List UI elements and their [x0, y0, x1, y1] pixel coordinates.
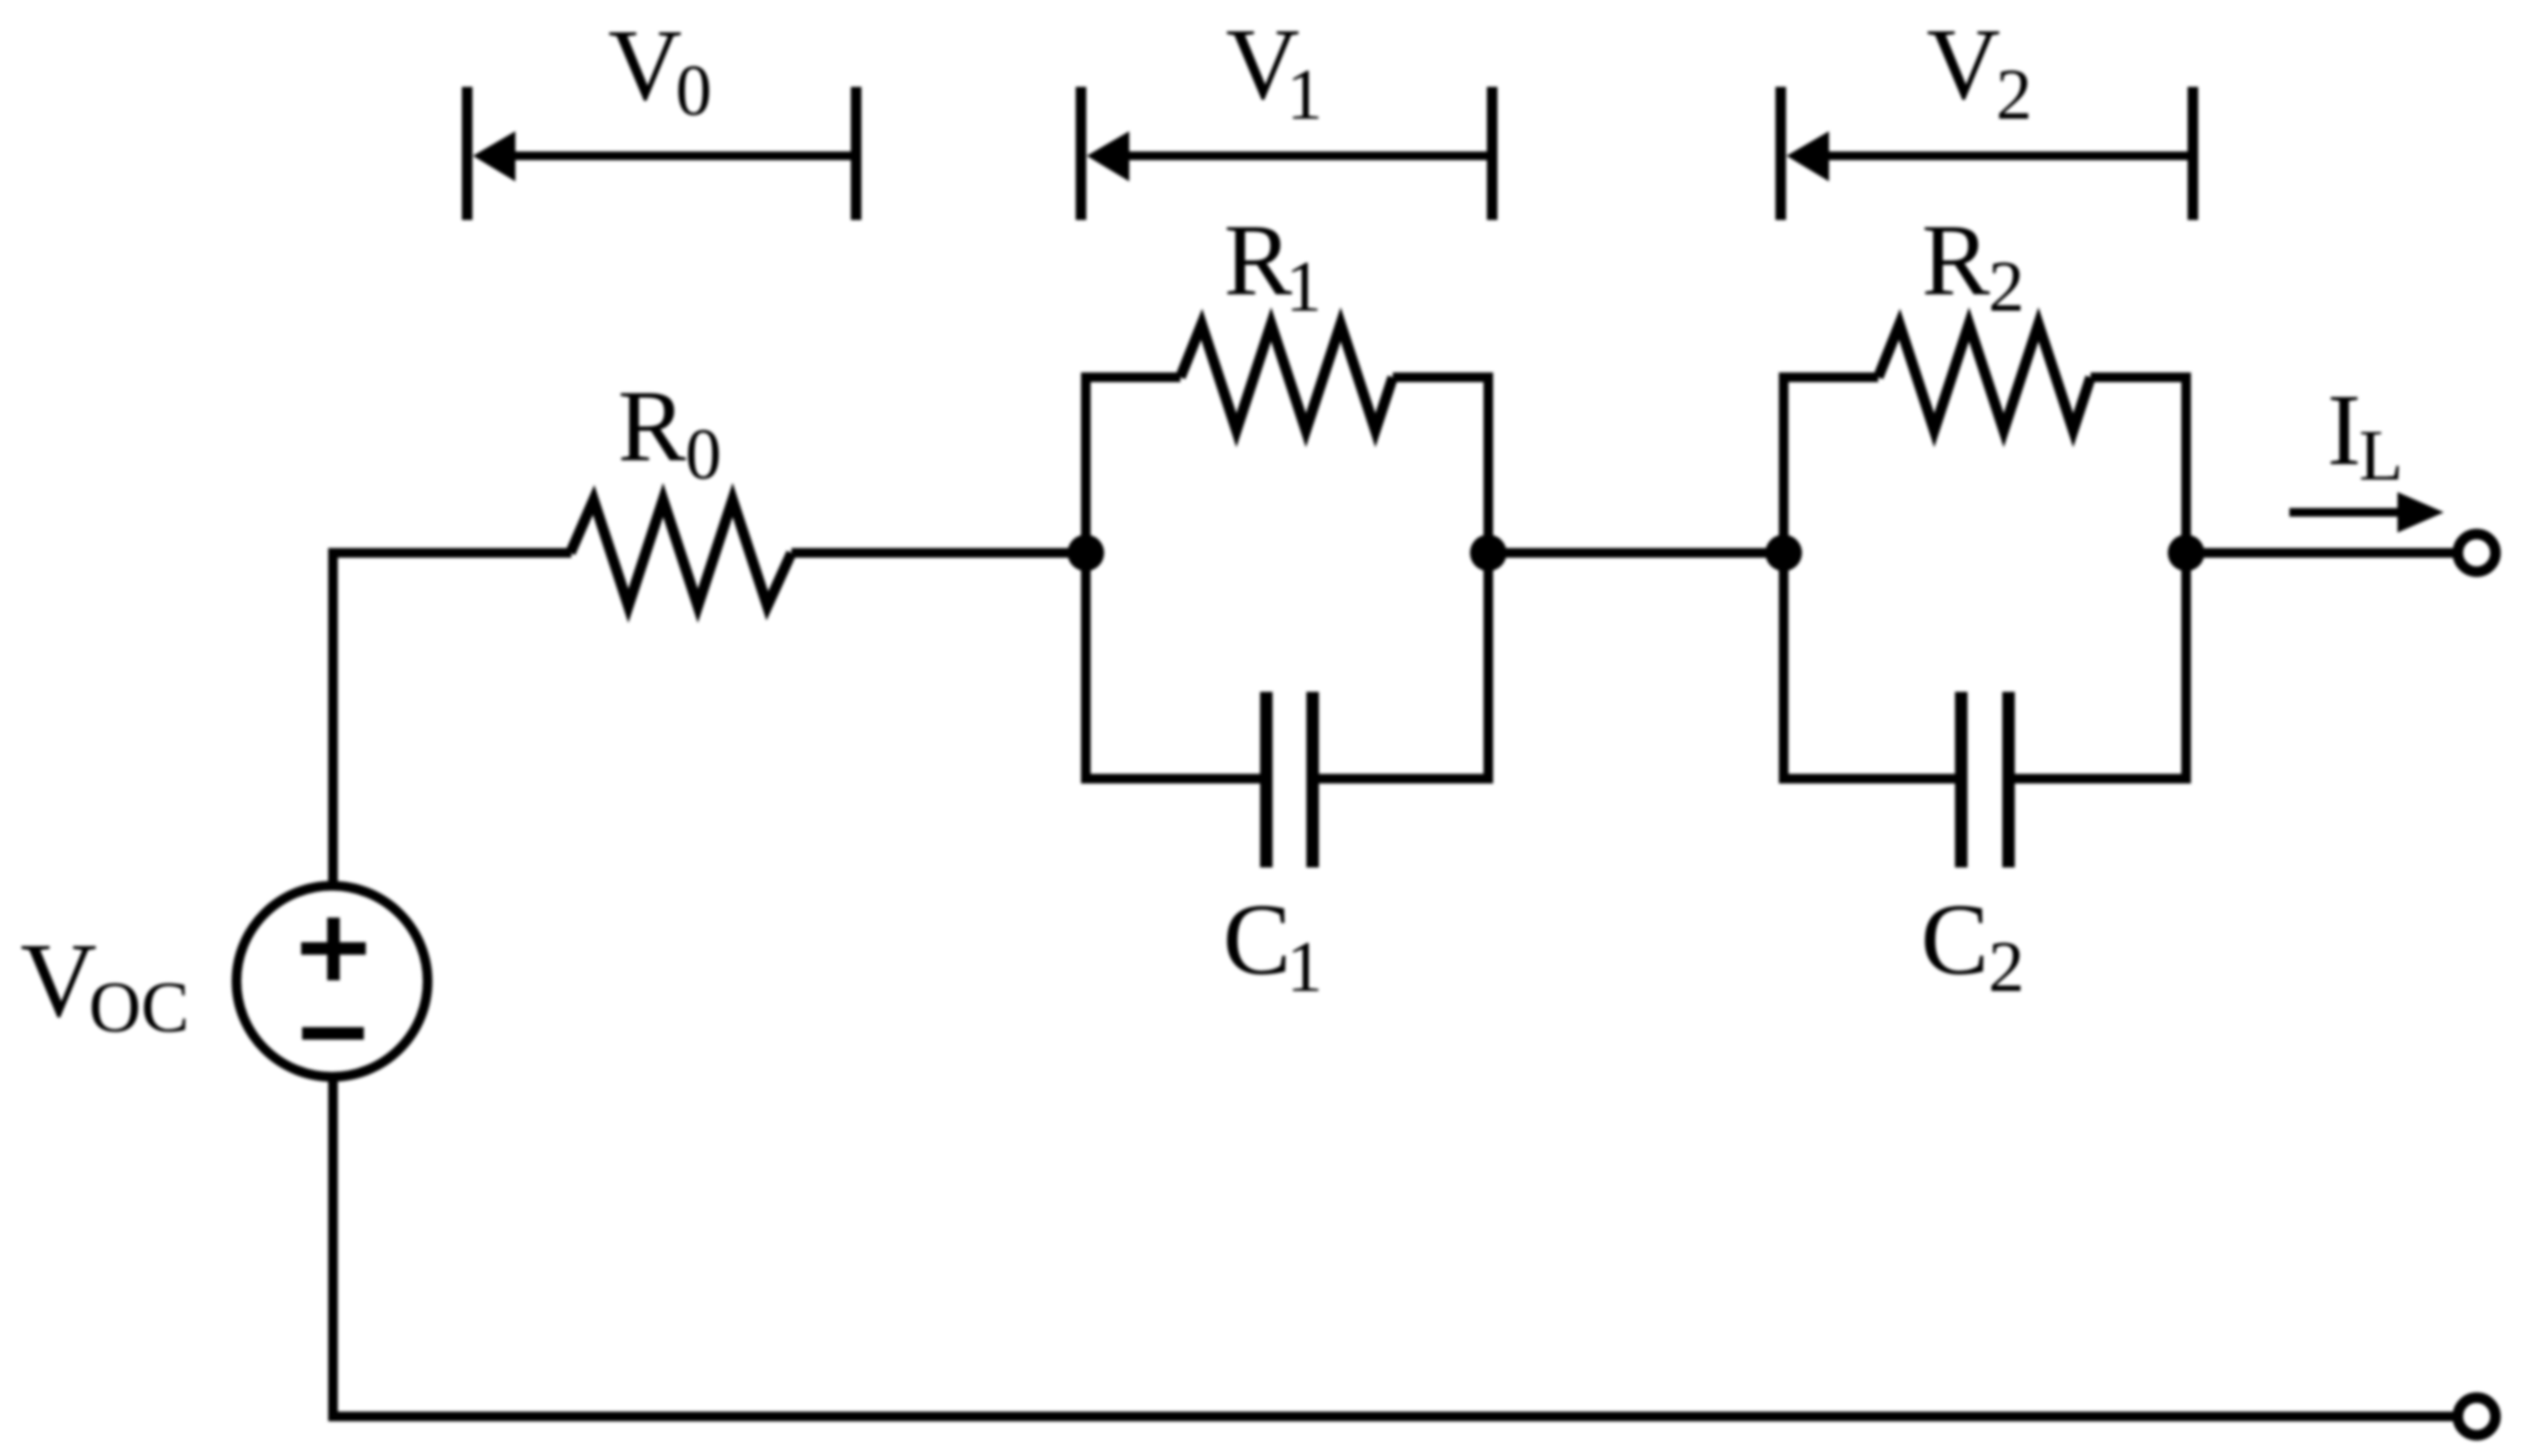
- svg-text:V: V: [608, 9, 682, 122]
- svg-text:C: C: [1223, 883, 1291, 996]
- load current IL arrow: [2289, 492, 2444, 533]
- negative output terminal: [2458, 1398, 2496, 1436]
- capacitor C1: [1266, 692, 1313, 867]
- wire bottom rail left of C2: [1779, 774, 1961, 783]
- wire bottom rail left of C1: [1081, 774, 1266, 783]
- svg-text:1: 1: [1286, 247, 1322, 327]
- V0 arrow: [473, 131, 851, 181]
- wire bottom rail right of C1: [1313, 774, 1493, 783]
- wire right edge of R2C2 loop: [2181, 377, 2191, 779]
- wire left edge of R2C2 loop: [1779, 377, 1788, 779]
- V1 arrow: [1087, 131, 1487, 181]
- svg-text:1: 1: [1287, 55, 1323, 135]
- svg-text:0: 0: [685, 415, 722, 495]
- node D junction dot: [2168, 535, 2204, 571]
- svg-text:C: C: [1921, 883, 1989, 996]
- wire top rail left of R1: [1081, 372, 1180, 382]
- svg-text:2: 2: [1988, 927, 2025, 1007]
- voltage source VOC circle: [236, 886, 428, 1077]
- V0 measurement marker right bar: [851, 87, 862, 220]
- wire bottom rail right of C2: [2009, 774, 2191, 783]
- svg-text:OC: OC: [89, 968, 189, 1048]
- wire node D to positive terminal: [2186, 548, 2453, 558]
- svg-text:1: 1: [1287, 927, 1323, 1007]
- wire right edge of R1C1 loop: [1483, 377, 1493, 779]
- svg-text:R: R: [1922, 204, 1990, 316]
- positive output terminal: [2458, 535, 2496, 572]
- resistor R1: [1180, 324, 1393, 430]
- node A junction dot: [1067, 535, 1104, 571]
- svg-text:2: 2: [1988, 247, 2025, 327]
- svg-text:R: R: [1224, 204, 1292, 316]
- node C junction dot: [1765, 535, 1802, 571]
- resistor R0: [570, 500, 791, 606]
- svg-text:0: 0: [676, 51, 712, 131]
- wire source bottom down and bottom rail to negative terminal: [333, 1077, 2453, 1416]
- wire top rail right of R1: [1393, 372, 1493, 382]
- V2 measurement marker right bar: [2188, 87, 2199, 220]
- capacitor C2: [1961, 692, 2009, 867]
- svg-text:V: V: [1926, 8, 2001, 121]
- wire left edge of R1C1 loop: [1081, 377, 1091, 779]
- V2 measurement marker left bar: [1776, 87, 1787, 220]
- wire top rail left of R2: [1779, 372, 1878, 382]
- resistor R2: [1878, 324, 2091, 430]
- svg-text:V: V: [20, 921, 97, 1039]
- svg-text:R: R: [618, 370, 686, 482]
- V2 arrow: [1787, 131, 2188, 181]
- V0 measurement marker left bar: [462, 87, 473, 220]
- minus sign inside source: [302, 1028, 364, 1040]
- V1 measurement marker right bar: [1487, 87, 1498, 220]
- svg-text:2: 2: [1996, 55, 2033, 135]
- wire between RC loops: [1488, 548, 1784, 558]
- svg-text:I: I: [2327, 373, 2361, 486]
- wire top-left horizontal from source corner to R0: [333, 553, 571, 886]
- node B junction dot: [1470, 535, 1507, 571]
- plus sign inside source: [301, 918, 366, 980]
- V1 measurement marker left bar: [1076, 87, 1087, 220]
- wire R0 to node A: [791, 548, 1086, 558]
- wire top rail right of R2: [2091, 372, 2191, 382]
- svg-text:L: L: [2359, 416, 2403, 496]
